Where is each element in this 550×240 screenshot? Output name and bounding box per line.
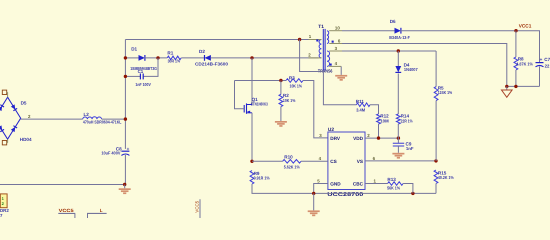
wire VDD row [365, 137, 398, 139]
svg-text:1SMB5948BT3G: 1SMB5948BT3G [130, 66, 157, 71]
svg-text:B340A-13-F: B340A-13-F [389, 35, 410, 40]
svg-text:R1: R1 [167, 50, 173, 55]
wire R1 to D2 [181, 57, 204, 59]
svg-text:HD04: HD04 [20, 137, 32, 142]
ground T1 pin4 [335, 75, 347, 77]
svg-text:22R 1%: 22R 1% [401, 118, 413, 123]
wire GND pin [314, 184, 328, 194]
svg-text:U2: U2 [328, 127, 334, 133]
wire C1 loop [125, 75, 140, 77]
ground secondary [506, 86, 508, 90]
wire snubber row left [125, 57, 138, 59]
terminal top AC [2, 90, 6, 94]
svg-text:10uF 400V: 10uF 400V [101, 151, 120, 156]
svg-text:3.4M: 3.4M [356, 108, 365, 113]
wire secondary return [342, 44, 507, 87]
svg-text:R13: R13 [387, 177, 396, 182]
wire R12 to VDD row [378, 124, 380, 138]
transformer T1 core [322, 29, 324, 71]
T1 pin4 stub [329, 65, 341, 67]
wire R13 to rail [403, 184, 413, 194]
wire secondary bottom row [507, 85, 540, 87]
ground C9 [392, 153, 404, 155]
wire R10 to CS pin [301, 160, 328, 162]
diode D2 [205, 55, 211, 61]
T1 pin1 stub [309, 39, 322, 41]
svg-text:+: + [127, 146, 130, 151]
diode D1 [139, 55, 145, 61]
resistor R12 [377, 114, 381, 124]
wire C7 bottom [539, 66, 541, 86]
svg-text:T1: T1 [318, 24, 324, 30]
T1 pin3 stub [329, 50, 342, 52]
svg-text:1nF: 1nF [406, 146, 414, 151]
svg-text:4.87K 1%: 4.87K 1% [516, 61, 533, 66]
wire D4 to R14 [397, 74, 399, 115]
node rail gnd [312, 192, 315, 195]
wire L2 to bulk node [102, 118, 126, 120]
svg-text:D5: D5 [21, 101, 27, 106]
svg-text:+: + [540, 57, 543, 62]
svg-text:D6: D6 [390, 19, 396, 24]
wire gate row left [235, 80, 287, 82]
svg-text:30R 1%: 30R 1% [168, 59, 181, 64]
svg-text:10K 1%: 10K 1% [290, 84, 303, 89]
wire VCC1 rail [401, 31, 540, 63]
node snubber left [124, 56, 127, 59]
node VDD R14 [397, 136, 400, 139]
T1 pin10 stub [329, 30, 342, 32]
svg-text:0.91R 1%: 0.91R 1% [254, 175, 270, 180]
svg-text:C7: C7 [544, 57, 550, 62]
wire negative rail [0, 184, 125, 186]
svg-text:CD214B-F3600: CD214B-F3600 [195, 62, 229, 67]
wire R3 to DRV [303, 81, 328, 138]
svg-text:CBC: CBC [353, 181, 364, 186]
T1 aux winding [327, 51, 330, 66]
svg-text:124K 1%: 124K 1% [438, 90, 453, 95]
transistor Q1 [243, 105, 245, 113]
svg-text:CS: CS [330, 159, 337, 164]
wire top rail [125, 39, 318, 41]
wire D1 to C1 node [145, 57, 168, 59]
resistor R2 [279, 94, 283, 106]
T1 secondary winding [327, 31, 329, 44]
svg-text:470uH SDR0604-471KL: 470uH SDR0604-471KL [83, 119, 122, 124]
bridge rectifier D5 [0, 97, 21, 139]
node C1 right [156, 56, 159, 59]
wire bridge to L2 [21, 118, 83, 120]
resistor R14 [396, 114, 400, 124]
svg-text:VS: VS [357, 159, 363, 164]
wire CS row left [252, 160, 283, 162]
wire R2 top [280, 81, 282, 95]
svg-text:L2: L2 [84, 112, 90, 117]
wire D4 anode [397, 51, 399, 66]
node L2/C8 junction [124, 117, 127, 120]
svg-text:VCC1: VCC1 [519, 24, 532, 30]
wire aux pin3 row [342, 50, 436, 52]
capacitor C7 [536, 62, 544, 64]
wire VCC5 riser [199, 199, 201, 218]
svg-text:10: 10 [335, 26, 340, 31]
node rail CBC [411, 192, 414, 195]
resistor R15 [434, 170, 438, 184]
connector P1 [0, 194, 7, 208]
svg-text:1N4007: 1N4007 [404, 67, 418, 72]
wire R8 bottom [515, 70, 517, 86]
wire gate [235, 81, 245, 109]
svg-text:5.62K 1%: 5.62K 1% [284, 164, 300, 169]
node VS divider [434, 159, 437, 162]
wire R9 to rail [252, 184, 314, 193]
resistor R8 [514, 57, 518, 70]
wire C9 bottom [397, 146, 399, 153]
node gate pulldown [279, 79, 282, 82]
svg-text:22: 22 [545, 63, 550, 68]
svg-text:R11: R11 [356, 99, 365, 104]
node CS/source/R9 [250, 160, 253, 163]
wire R5 column [435, 51, 437, 87]
node C1 left [124, 75, 127, 78]
op-amp U2 box [328, 132, 365, 190]
svg-text:D1: D1 [131, 46, 137, 51]
node D4 tap [397, 49, 400, 52]
resistor R5 [434, 87, 438, 101]
wire C9 top [397, 138, 399, 143]
wire R14 to VDD [397, 124, 399, 138]
svg-text:L: L [100, 208, 103, 213]
node R8 bottom [514, 85, 517, 88]
T1 phase dot pin6 [332, 41, 334, 43]
wire T1 pin10 to D6 [342, 30, 395, 32]
wire CBC row [365, 183, 388, 185]
wire DC+ column [124, 40, 126, 149]
wire source [251, 113, 253, 162]
wire R2 bottom [280, 107, 282, 121]
wire R5 to VS [435, 101, 437, 161]
wire VS row [365, 160, 436, 162]
terminal bottom AC [2, 141, 6, 145]
wire R11 to R12 [370, 105, 379, 114]
ground bulk (power gnd) [124, 185, 126, 189]
svg-text:10M: 10M [380, 118, 389, 123]
svg-text:STN1N60K3: STN1N60K3 [251, 102, 268, 107]
wire drain [251, 58, 253, 105]
resistor R1 [167, 56, 181, 60]
resistor R3 [286, 79, 303, 83]
ground rail [313, 193, 315, 210]
node VDD R12 [377, 136, 380, 139]
svg-text:VCC5: VCC5 [194, 200, 199, 212]
resistor R11 [356, 103, 370, 107]
diode D4 [395, 66, 401, 72]
T1 phase dot pin4 [330, 64, 332, 66]
svg-text:D2: D2 [199, 49, 205, 54]
T1 pin2 stub [309, 57, 322, 59]
wire T1 pin4 to gnd [340, 66, 342, 75]
node SGND [505, 85, 508, 88]
T1 primary winding [319, 40, 321, 58]
node startup tap [298, 38, 301, 41]
svg-text:C1: C1 [138, 69, 144, 74]
diode D6 [395, 28, 401, 34]
wire D2 to T1 pin2 [211, 57, 319, 59]
svg-text:VDD: VDD [353, 136, 364, 141]
svg-text:VCC5: VCC5 [59, 208, 75, 213]
svg-text:DRV: DRV [330, 136, 341, 141]
capacitor C9 [393, 142, 404, 144]
T1 phase dot pin1 [316, 39, 318, 41]
svg-text:R3: R3 [289, 75, 295, 80]
svg-text:R10: R10 [284, 154, 293, 159]
capacitor C1 [139, 74, 141, 80]
wire R8 top [515, 31, 517, 57]
wire startup feed [300, 40, 357, 105]
wire bottom rail [314, 192, 436, 194]
svg-text:40.2K 1%: 40.2K 1% [438, 175, 454, 180]
wire R15 to rail [435, 184, 437, 194]
svg-text:10K 1%: 10K 1% [283, 98, 296, 103]
ground R2 [275, 121, 287, 123]
svg-text:GND: GND [330, 181, 341, 186]
node C8/rail junction [123, 183, 126, 186]
svg-text:1nF 100V: 1nF 100V [135, 82, 151, 87]
resistor R13 [388, 182, 404, 186]
T1 pin6 stub [329, 43, 342, 45]
capacitor C8 [121, 150, 129, 152]
node VCC1 [514, 29, 517, 32]
inductor L2 [83, 117, 102, 119]
resistor R10 [283, 160, 301, 164]
node drain tap [250, 56, 253, 59]
resistor R9 [250, 171, 254, 185]
svg-text:56K 1%: 56K 1% [387, 185, 400, 190]
